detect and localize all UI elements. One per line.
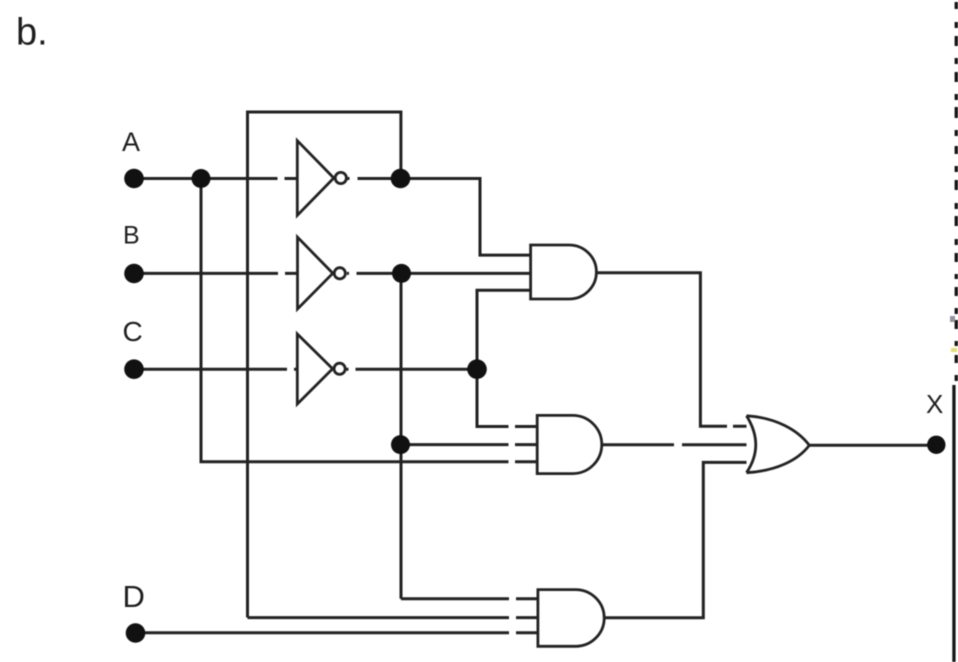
node A input terminal	[124, 169, 144, 189]
node X output terminal	[927, 436, 945, 454]
AND gate U4	[531, 245, 597, 299]
svg-text:X: X	[926, 389, 943, 419]
wire A-inverter output to AND1 top corner	[347, 179, 531, 256]
wire D input to AND3 bottom	[135, 631, 538, 634]
svg-text:b.: b.	[16, 12, 48, 54]
node A junction	[192, 169, 211, 188]
wire A input to inverter	[134, 177, 303, 180]
node C input terminal	[124, 359, 144, 379]
node Bbar output	[392, 264, 411, 283]
wire C-inverter output to node	[347, 368, 478, 371]
inverter U1 (A)	[297, 141, 334, 216]
wire Cbar down to AND2 top	[477, 369, 538, 426]
svg-text:C: C	[123, 316, 143, 347]
wire C input to inverter	[134, 368, 303, 371]
svg-text:B: B	[123, 222, 140, 250]
node Abar output	[391, 169, 411, 189]
wire feedback loop top	[248, 112, 401, 618]
inverter U2 (B)	[298, 237, 333, 309]
node Bbar junction	[391, 435, 410, 454]
page edge solid line	[952, 385, 955, 662]
inverter U3 (C)	[297, 334, 332, 404]
scan dropout gaps	[278, 174, 734, 637]
page edge colored specks	[950, 316, 957, 352]
node D input terminal	[126, 623, 146, 643]
wire Bbar to AND2 middle	[401, 443, 538, 446]
AND gate U5	[537, 415, 602, 473]
wire Abar to AND3 middle	[248, 616, 539, 619]
page edge dashes	[955, 2, 958, 381]
wire Bbar to AND3 top	[401, 597, 538, 600]
AND gate U6	[538, 590, 604, 647]
svg-text:A: A	[122, 127, 140, 157]
svg-text:D: D	[123, 579, 145, 614]
wire AND2 output to OR middle	[602, 443, 756, 446]
wire AND3 output to OR bottom	[604, 462, 752, 617]
wire OR output to X	[809, 444, 937, 447]
node B input terminal	[124, 264, 144, 284]
wire A branch to AND2 bottom	[201, 179, 538, 462]
wire Cbar up to AND1 bottom	[477, 290, 531, 369]
wire B-inverter output to AND1 middle	[347, 272, 531, 275]
OR gate U7	[747, 416, 810, 473]
wire Bbar vertical	[400, 273, 403, 598]
wire B input to inverter	[134, 272, 303, 275]
wire AND1 output to OR top	[596, 273, 752, 427]
node Cbar junction	[467, 359, 487, 379]
